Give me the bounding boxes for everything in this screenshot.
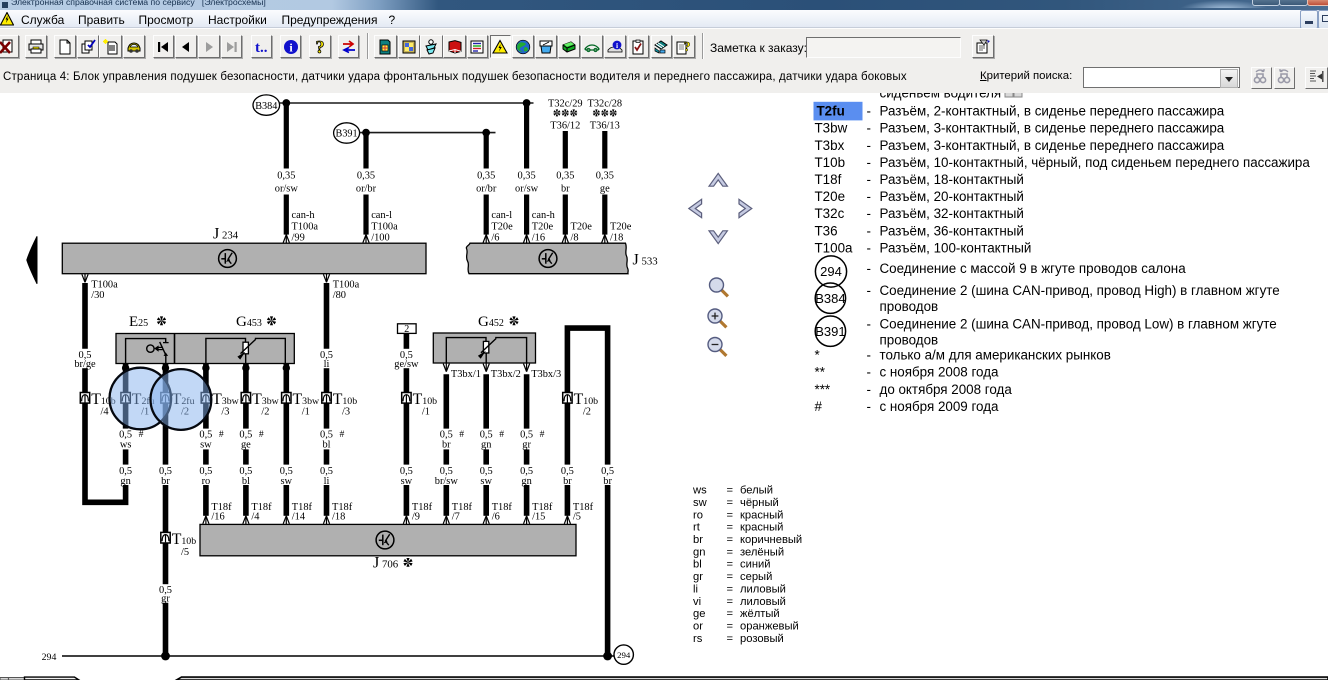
svg-text:=: =	[727, 509, 734, 521]
svg-text:gr: gr	[522, 440, 531, 451]
svg-text:/4: /4	[251, 512, 260, 523]
svg-text:can-l: can-l	[491, 210, 512, 221]
wire 0,5 gr / 0,5 gn from T3bx/3 to T18f/15	[520, 374, 553, 524]
legend node B384	[815, 283, 845, 313]
connector T2fu/1	[121, 391, 155, 418]
svg-text:/2: /2	[261, 407, 269, 418]
svg-text:B391: B391	[336, 129, 358, 140]
legend footnotes	[815, 348, 1111, 414]
svg-text:T18f: T18f	[815, 172, 842, 187]
ground rail 294	[62, 655, 614, 657]
wire 0,5 gn / 0,5 sw from T3bx/2 to T18f/6	[480, 374, 513, 524]
svg-text:ge: ge	[693, 608, 705, 620]
svg-text:or/sw: or/sw	[515, 183, 539, 194]
wire 0,5 br from T2fu/2 to T10b/5	[159, 403, 172, 532]
wire T100a/30 0,5 br/ge from J234	[74, 274, 118, 393]
svg-text:t..: t..	[255, 40, 268, 55]
label G453 *	[236, 314, 276, 330]
wire 0,5 gr from T10b/5 to ground 294	[159, 543, 172, 656]
connector T10b/4	[80, 391, 115, 418]
svg-text:розовый: розовый	[740, 633, 784, 645]
node B391	[334, 123, 360, 143]
svg-text:***: ***	[815, 382, 831, 397]
zoom-out tool icon	[708, 338, 726, 356]
svg-text:-: -	[867, 261, 871, 276]
svg-text:#: #	[340, 429, 345, 440]
svg-text:0,35: 0,35	[518, 171, 536, 182]
svg-text:vi: vi	[693, 596, 701, 608]
svg-text:bl: bl	[693, 559, 702, 571]
svg-text:=: =	[727, 596, 734, 608]
control unit J234 airbag	[62, 243, 426, 274]
junction dot at ground wire x=607.6	[603, 652, 612, 661]
svg-text:=: =	[727, 583, 734, 595]
svg-text:-: -	[867, 382, 871, 397]
legend node B391	[815, 316, 845, 346]
svg-text:T3bx/3: T3bx/3	[531, 369, 561, 380]
svg-text:sw: sw	[693, 497, 708, 509]
svg-text:/14: /14	[292, 512, 306, 523]
G453 internal sensor symbol	[206, 338, 285, 363]
svg-text:T20e: T20e	[610, 222, 632, 233]
component box G452 (side crash sensor)	[433, 333, 535, 363]
svg-text:sw: sw	[200, 440, 212, 451]
highlight circle over T2fu/2	[151, 369, 212, 430]
svg-text:T20e: T20e	[815, 189, 846, 204]
svg-text:коричневый: коричневый	[740, 534, 802, 546]
svg-text:#: #	[259, 429, 264, 440]
wire 0,5 ge / 0,5 bl from T3bw/2 to T18f/4	[239, 403, 272, 524]
svg-text:проводов: проводов	[880, 299, 939, 314]
wire from T10b/4 down to U-turn	[85, 403, 126, 502]
svg-text:Соединение 2 (шина CAN-привод,: Соединение 2 (шина CAN-привод, провод Lo…	[880, 317, 1277, 332]
svg-text:gn: gn	[693, 546, 705, 558]
connector T3bw/2	[241, 391, 279, 418]
G452 internal sensor symbol	[446, 338, 526, 363]
svg-text:Разъём, 2-контактный, в сидень: Разъём, 2-контактный, в сиденье переднег…	[880, 104, 1225, 119]
svg-text:с ноября 2009 года: с ноября 2009 года	[880, 399, 1000, 414]
junction dot below component box x=165.5	[162, 364, 169, 393]
svg-text:/15: /15	[532, 512, 545, 523]
svg-text:/30: /30	[91, 290, 104, 301]
svg-text:br/ge: br/ge	[74, 359, 96, 370]
svg-text:?: ?	[316, 39, 325, 55]
svg-text:B384: B384	[815, 291, 845, 306]
wire CAN-high bus from B384	[280, 102, 534, 104]
svg-text:or/br: or/br	[356, 183, 377, 194]
svg-text:=: =	[727, 534, 734, 546]
svg-text:синий: синий	[740, 559, 771, 571]
svg-text:/18: /18	[332, 512, 345, 523]
svg-text:T100a: T100a	[91, 279, 118, 290]
svg-text:T3bx: T3bx	[815, 138, 845, 153]
connector T3bx/1	[443, 363, 481, 380]
svg-text:can-h: can-h	[292, 210, 316, 221]
wire colour code legend	[692, 485, 802, 645]
svg-text:br: br	[442, 440, 451, 451]
wire 0,35 or/br at x=486.2 into control unit	[476, 133, 513, 244]
svg-text:T100a: T100a	[815, 240, 854, 255]
svg-text:/5: /5	[573, 512, 581, 523]
svg-text:-: -	[867, 104, 871, 119]
wire 0,5 sw from T3bw/1 to T18f/14	[280, 403, 313, 524]
highlight circle over T2fu/1	[110, 368, 172, 430]
svg-text:-: -	[867, 399, 871, 414]
svg-text:T3bx/1: T3bx/1	[451, 369, 481, 380]
wire 0,35 br at x=565.3 into control unit	[556, 131, 592, 243]
svg-text:gn: gn	[120, 476, 131, 487]
svg-text:лиловый: лиловый	[740, 596, 786, 608]
svg-text:чёрный: чёрный	[740, 497, 779, 509]
svg-text:T20e: T20e	[571, 222, 593, 233]
svg-text:Соединение с массой 9 в жгуте: Соединение с массой 9 в жгуте проводов с…	[880, 261, 1187, 276]
svg-text:сиденьем водителя: сиденьем водителя	[880, 93, 1002, 100]
svg-text:=: =	[727, 522, 734, 534]
junction dot B384/T20e-16	[523, 99, 531, 107]
svg-text:-: -	[867, 283, 871, 298]
wire T100a/80 0,5 li from J234	[320, 274, 360, 393]
svg-text:#: #	[459, 429, 464, 440]
svg-text:gr: gr	[693, 571, 703, 583]
menu bar	[0, 10, 1328, 29]
svg-text:br: br	[561, 183, 570, 194]
svg-text:br: br	[693, 534, 703, 546]
wire 0,5 bl / 0,5 li from T10b/3 to T18f/18	[320, 403, 353, 524]
svg-text:T32c/29: T32c/29	[548, 98, 583, 109]
svg-text:белый: белый	[740, 485, 773, 497]
svg-text:2: 2	[404, 324, 409, 335]
toolbar row 2 / info bar	[0, 61, 1328, 94]
pin labels T32c/29 *** T36/12	[548, 98, 583, 131]
junction dot B391/T20e-6	[482, 129, 490, 137]
wire 0,5 ge/sw from terminal 2 to T10b/1	[394, 333, 419, 393]
label J234	[213, 225, 239, 243]
label G452 *	[478, 314, 519, 330]
svg-text:Соединение 2 (шина CAN-привод,: Соединение 2 (шина CAN-привод, провод Hi…	[880, 283, 1280, 298]
svg-text:T32c: T32c	[815, 206, 845, 221]
svg-text:/6: /6	[491, 232, 499, 243]
svg-text:T100a: T100a	[333, 279, 360, 290]
svg-text:с ноября 2008 года: с ноября 2008 года	[880, 365, 1000, 380]
connector T10b/2	[563, 391, 598, 418]
svg-text:Разъём, 10-контактный, чёрный,: Разъём, 10-контактный, чёрный, под сиден…	[880, 155, 1311, 170]
junction dot B384/T100a-99	[282, 99, 290, 107]
svg-text:/16: /16	[211, 512, 224, 523]
svg-text:-: -	[867, 365, 871, 380]
connector T3bw/1	[282, 391, 320, 418]
svg-text:-: -	[867, 121, 871, 136]
svg-text:красный: красный	[740, 522, 783, 534]
svg-text:0,35: 0,35	[357, 171, 375, 182]
svg-text:T36/13: T36/13	[590, 120, 620, 131]
svg-text:/1: /1	[302, 407, 310, 418]
svg-text:#: #	[139, 429, 144, 440]
svg-text:#: #	[815, 399, 823, 414]
control unit J533 gateway	[466, 243, 628, 274]
svg-text:/80: /80	[333, 290, 346, 301]
svg-text:#: #	[499, 429, 504, 440]
svg-text:Разъём, 20-контактный: Разъём, 20-контактный	[880, 189, 1024, 204]
svg-text:294: 294	[820, 264, 842, 279]
svg-text:bl: bl	[322, 440, 330, 451]
legend connector list	[814, 102, 1311, 256]
svg-text:до октября 2008 года: до октября 2008 года	[880, 382, 1013, 397]
svg-text:/2: /2	[583, 407, 591, 418]
svg-text:-: -	[867, 348, 871, 363]
svg-text:gn: gn	[481, 440, 492, 451]
svg-text:=: =	[727, 485, 734, 497]
legend ground node 294	[815, 256, 846, 287]
svg-text:ge: ge	[241, 440, 251, 451]
label J706 *	[373, 553, 413, 571]
pan control right arrow	[739, 199, 752, 217]
svg-text:=: =	[727, 633, 734, 645]
svg-text:-: -	[867, 240, 871, 255]
junction dot at ground wire x=165.5	[161, 652, 170, 661]
connector T10b/1	[402, 391, 437, 418]
page-continuation arrow (left margin)	[27, 236, 37, 283]
svg-text:/3: /3	[221, 407, 229, 418]
svg-text:/1: /1	[422, 407, 430, 418]
svg-text:только а/м для американских ры: только а/м для американских рынков	[880, 348, 1111, 363]
svg-text:-: -	[867, 317, 871, 332]
svg-text:T20e: T20e	[532, 222, 554, 233]
svg-text:T36/12: T36/12	[550, 120, 580, 131]
svg-text:B384: B384	[255, 101, 277, 112]
svg-text:-: -	[867, 223, 871, 238]
svg-text:?: ?	[684, 40, 691, 55]
svg-text:#: #	[219, 429, 224, 440]
svg-text:294: 294	[42, 652, 57, 663]
zoom tool icon	[710, 278, 728, 296]
connector T3bx/2	[483, 363, 521, 380]
wire 0,5 sw / 0,5 ro from T3bw/3 to T18f/16	[199, 403, 232, 524]
svg-text:T100a: T100a	[371, 222, 398, 233]
component box E25 + G453 (seat switch & sensor)	[116, 334, 294, 364]
E25 internal switch symbol	[126, 339, 169, 364]
svg-text:Разъем, 3-контактный, в сидень: Разъем, 3-контактный, в сиденье переднег…	[880, 138, 1225, 153]
svg-text:красный: красный	[740, 509, 783, 521]
junction dot B391/T100a-100	[362, 129, 370, 137]
svg-text:ws: ws	[692, 485, 707, 497]
control unit J706 seat occupancy	[200, 524, 576, 555]
wire CAN-low bus from B391	[360, 132, 496, 134]
wire 0,5 br / 0,5 br/sw from T3bx/1 to T18f/7	[435, 374, 473, 524]
toolbar row 1	[0, 28, 1328, 62]
svg-text:T10b: T10b	[815, 155, 846, 170]
wire 0,5 ws / 0,5 gn from T2fu/1	[119, 403, 144, 487]
svg-text:rs: rs	[693, 633, 703, 645]
svg-text:Разъем, 3-контактный, в сидень: Разъем, 3-контактный, в сиденье переднег…	[880, 121, 1225, 136]
wire 0,5 br right leg to ground 294	[601, 466, 614, 656]
svg-text:оранжевый: оранжевый	[740, 620, 799, 632]
ground node circle 294	[614, 645, 633, 664]
svg-text:T3bx/2: T3bx/2	[491, 369, 521, 380]
svg-text:or/br: or/br	[476, 183, 497, 194]
svg-text:/7: /7	[452, 512, 460, 523]
svg-text:Разъём, 100-контактный: Разъём, 100-контактный	[880, 240, 1032, 255]
svg-text:rt: rt	[693, 522, 701, 534]
svg-text:=: =	[727, 571, 734, 583]
svg-text:зелёный: зелёный	[740, 546, 784, 558]
svg-text:#: #	[540, 429, 545, 440]
wire 0,5 br from T10b/2 to T18f/5	[561, 403, 594, 524]
svg-text:-: -	[867, 155, 871, 170]
svg-text:Разъём, 36-контактный: Разъём, 36-контактный	[880, 223, 1024, 238]
svg-text:проводов: проводов	[880, 332, 939, 347]
svg-text:серый: серый	[740, 571, 772, 583]
svg-text:-: -	[867, 206, 871, 221]
svg-text:/6: /6	[492, 512, 500, 523]
svg-text:=: =	[727, 559, 734, 571]
svg-text:0,35: 0,35	[477, 171, 495, 182]
label E25 *	[129, 314, 166, 330]
svg-text:=: =	[727, 546, 734, 558]
svg-text:-: -	[867, 138, 871, 153]
wire 0,35 ge at x=604.8 into control unit	[596, 131, 632, 243]
svg-text:-: -	[867, 189, 871, 204]
junction dot below component box x=286.3	[283, 364, 290, 393]
svg-text:li: li	[693, 583, 698, 595]
svg-text:or/sw: or/sw	[275, 183, 299, 194]
svg-text:/16: /16	[532, 232, 545, 243]
svg-text:/3: /3	[342, 407, 350, 418]
pan control left arrow	[689, 199, 702, 217]
connector T3bx/3	[524, 363, 562, 380]
svg-text:Разъём, 18-контактный: Разъём, 18-контактный	[880, 172, 1024, 187]
svg-text:=: =	[727, 608, 734, 620]
svg-text:0,35: 0,35	[596, 171, 614, 182]
connector T3bw/3	[201, 391, 239, 418]
svg-text:/18: /18	[610, 232, 623, 243]
junction dot below component box x=125.6	[122, 364, 129, 393]
connector T10b/3	[322, 391, 357, 418]
svg-text:**: **	[815, 365, 825, 380]
svg-text:T36: T36	[815, 223, 838, 238]
svg-text:=: =	[727, 620, 734, 632]
terminal 2 box	[398, 324, 417, 335]
zoom-in tool icon	[708, 309, 726, 327]
connector T2fu/2	[161, 391, 195, 418]
svg-text:0,35: 0,35	[556, 171, 574, 182]
svg-text:лиловый: лиловый	[740, 583, 786, 595]
junction dot below component box x=205.9	[202, 364, 209, 393]
svg-text:Разъём, 32-контактный: Разъём, 32-контактный	[880, 206, 1024, 221]
svg-text:-: -	[867, 172, 871, 187]
svg-text:/99: /99	[292, 232, 305, 243]
svg-text:0,35: 0,35	[277, 171, 295, 182]
pan control down arrow	[709, 231, 727, 244]
svg-text:/4: /4	[101, 407, 110, 418]
svg-text:/9: /9	[412, 512, 420, 523]
svg-text:or: or	[693, 620, 703, 632]
svg-text:294: 294	[617, 650, 631, 660]
bottom panel edges (cut)	[0, 677, 1328, 680]
svg-text:B391: B391	[815, 324, 845, 339]
svg-text:i: i	[616, 41, 618, 50]
junction dot below component box x=245.9	[242, 364, 249, 393]
svg-text:/8: /8	[571, 232, 579, 243]
svg-text:can-l: can-l	[371, 210, 392, 221]
connector T10b/5	[161, 531, 196, 558]
svg-text:T3bw: T3bw	[815, 121, 848, 136]
svg-text:жёлтый: жёлтый	[740, 608, 780, 620]
wire 0,35 or/sw at x=286.3 into control unit	[275, 103, 319, 243]
svg-text:T32c/28: T32c/28	[587, 98, 622, 109]
window title bar	[0, 0, 1328, 10]
svg-text:/100: /100	[371, 232, 389, 243]
svg-text:ro: ro	[693, 509, 703, 521]
wire 0,35 or/sw at x=526.6 into control unit	[515, 103, 556, 243]
pan control up arrow	[709, 173, 727, 186]
svg-text:ws: ws	[120, 440, 132, 451]
svg-text:=: =	[727, 497, 734, 509]
svg-text:can-h: can-h	[532, 210, 556, 221]
bridge wire (top-hat) between T10b/2 leg and ground leg	[567, 328, 607, 465]
svg-text:T2fu: T2fu	[817, 104, 845, 119]
wire 0,35 or/br at x=366.0 into control unit	[356, 133, 398, 244]
pin labels T32c/28 *** T36/13	[587, 98, 622, 131]
svg-text:ge: ge	[600, 183, 610, 194]
wire 0,5 sw from T10b/1 to T18f/9	[400, 403, 433, 524]
svg-text:*: *	[815, 348, 820, 363]
label J533	[633, 250, 658, 268]
svg-text:T100a: T100a	[292, 222, 319, 233]
svg-text:/5: /5	[181, 547, 189, 558]
svg-text:li: li	[324, 359, 330, 370]
svg-text:ge/sw: ge/sw	[394, 359, 419, 370]
node B384	[253, 95, 280, 115]
svg-text:T20e: T20e	[491, 222, 513, 233]
